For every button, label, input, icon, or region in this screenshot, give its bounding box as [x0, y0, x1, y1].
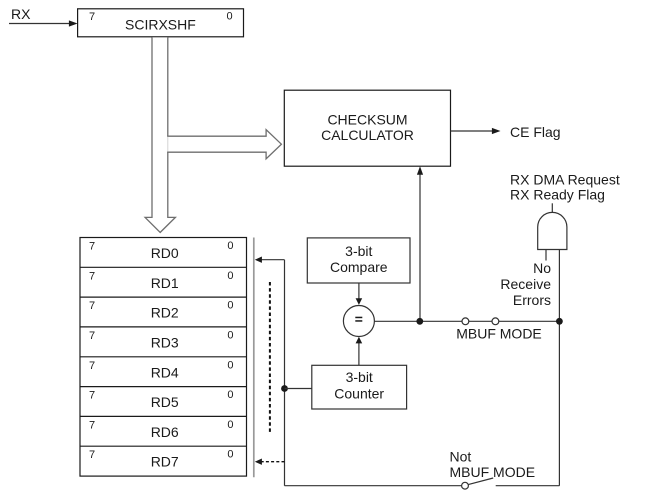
- svg-text:7: 7: [89, 419, 95, 431]
- svg-text:7: 7: [89, 330, 95, 342]
- svg-text:0: 0: [226, 11, 232, 23]
- svg-text:0: 0: [227, 449, 233, 461]
- svg-text:RD2: RD2: [151, 305, 179, 321]
- svg-text:MBUF MODE: MBUF MODE: [450, 464, 536, 480]
- svg-text:7: 7: [89, 241, 95, 253]
- svg-text:MBUF MODE: MBUF MODE: [456, 326, 542, 342]
- svg-text:7: 7: [89, 449, 95, 461]
- svg-text:Not: Not: [450, 448, 472, 464]
- svg-text:Receive: Receive: [500, 276, 551, 292]
- svg-text:0: 0: [227, 359, 233, 371]
- svg-text:RD4: RD4: [151, 364, 179, 380]
- svg-text:RD1: RD1: [151, 275, 179, 291]
- svg-text:7: 7: [89, 270, 95, 282]
- svg-text:0: 0: [227, 330, 233, 342]
- svg-text:RX Ready Flag: RX Ready Flag: [510, 187, 605, 203]
- svg-text:3-bit: 3-bit: [346, 369, 373, 385]
- svg-text:7: 7: [89, 360, 95, 372]
- svg-text:3-bit: 3-bit: [345, 243, 372, 259]
- svg-text:CHECKSUM: CHECKSUM: [327, 111, 407, 127]
- svg-text:7: 7: [89, 390, 95, 402]
- svg-text:RD0: RD0: [151, 245, 179, 261]
- svg-text:RX DMA Request: RX DMA Request: [510, 172, 620, 188]
- svg-text:Compare: Compare: [330, 259, 388, 275]
- svg-text:RX: RX: [11, 6, 31, 22]
- svg-text:0: 0: [227, 419, 233, 431]
- svg-text:7: 7: [89, 11, 95, 23]
- svg-text:0: 0: [227, 240, 233, 252]
- svg-text:CALCULATOR: CALCULATOR: [321, 127, 414, 143]
- svg-text:0: 0: [227, 389, 233, 401]
- svg-text:0: 0: [227, 270, 233, 282]
- svg-text:0: 0: [227, 300, 233, 312]
- svg-text:RD6: RD6: [151, 424, 179, 440]
- svg-text:RD5: RD5: [151, 394, 179, 410]
- svg-text:No: No: [533, 260, 551, 276]
- svg-text:Errors: Errors: [513, 292, 551, 308]
- svg-text:SCIRXSHF: SCIRXSHF: [125, 17, 196, 33]
- svg-text:CE Flag: CE Flag: [510, 124, 561, 140]
- svg-text:RD3: RD3: [151, 335, 179, 351]
- svg-text:Counter: Counter: [334, 386, 384, 402]
- svg-text:7: 7: [89, 300, 95, 312]
- svg-text:RD7: RD7: [151, 454, 179, 470]
